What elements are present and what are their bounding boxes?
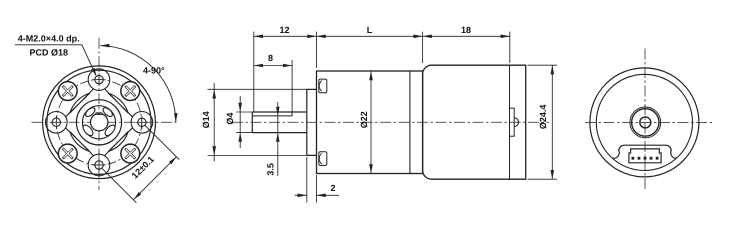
dim Ø24.4 xyxy=(528,65,558,179)
horizontal centerline right view xyxy=(585,121,715,123)
svg-text:Ø24.4: Ø24.4 xyxy=(538,105,548,130)
PCD Ø18 bolt circle (dash-dot) xyxy=(56,80,141,165)
dim Ø22 xyxy=(369,71,373,174)
shaft xyxy=(252,112,306,133)
screw lower-right xyxy=(121,144,140,163)
plate chamfer lines xyxy=(66,89,133,156)
M2 hole top xyxy=(93,73,106,86)
shaft flat xyxy=(252,112,292,116)
motor body xyxy=(423,65,526,179)
svg-text:4-M2.0×4.0 dp.: 4-M2.0×4.0 dp. xyxy=(18,33,80,43)
svg-text:Ø22: Ø22 xyxy=(359,111,369,128)
pins xyxy=(632,157,659,160)
boss Ø14 xyxy=(307,89,317,155)
M2 hole right xyxy=(135,116,148,129)
gearbox seam xyxy=(409,71,411,174)
slot upper-left xyxy=(84,106,96,118)
dim 12+-0.1 xyxy=(102,125,180,203)
svg-text:4-90°: 4-90° xyxy=(143,66,165,76)
slot lower-right xyxy=(103,123,116,137)
leader 4-M2.0x4.0dp xyxy=(15,45,97,77)
svg-text:3.5: 3.5 xyxy=(265,163,275,176)
plate ear circle left xyxy=(46,112,68,134)
horizontal centerline xyxy=(32,121,177,123)
plate diagonal arcs xyxy=(70,93,128,151)
vertical centerline xyxy=(98,38,100,190)
dim 2 xyxy=(295,157,339,203)
gearbox circle (Ø22) xyxy=(47,70,151,174)
dim Ø4 xyxy=(236,96,252,148)
centerline xyxy=(232,121,549,123)
motor outline circle (Ø24.4) xyxy=(43,66,156,179)
dim 8 xyxy=(254,60,292,115)
outer circle xyxy=(590,68,699,177)
screw lower-left xyxy=(58,144,77,163)
bearing rings xyxy=(630,107,661,138)
svg-text:PCD Ø18: PCD Ø18 xyxy=(30,47,69,57)
top dimension chain xyxy=(254,32,510,112)
plateau xyxy=(613,145,677,158)
inner circle xyxy=(596,74,692,170)
tab bottom xyxy=(319,152,327,166)
vertical centerline right view xyxy=(644,49,646,191)
dim Ø14 xyxy=(208,83,308,162)
dim 3.5 xyxy=(276,102,280,176)
svg-text:L: L xyxy=(367,25,373,35)
D-hole horns xyxy=(96,113,103,115)
plate ear circle top xyxy=(88,69,110,91)
plate ear circle right xyxy=(131,112,153,134)
svg-text:18: 18 xyxy=(461,25,471,35)
gearbox body xyxy=(317,71,423,174)
screw upper-right xyxy=(121,82,140,101)
svg-text:Ø14: Ø14 xyxy=(201,111,211,128)
plate ear circle bottom xyxy=(88,154,110,176)
rear boss detail xyxy=(510,108,515,136)
shaft D-hole (flat on top) xyxy=(91,114,108,131)
svg-text:2: 2 xyxy=(330,183,335,193)
svg-text:Ø4: Ø4 xyxy=(225,113,235,125)
screw upper-left xyxy=(58,82,77,101)
arc dimension 4-90 xyxy=(100,44,177,123)
M2 hole bottom xyxy=(93,159,106,172)
connector xyxy=(629,149,661,163)
motor endcap seam xyxy=(509,65,511,179)
tab top xyxy=(319,79,327,93)
hub mid circle xyxy=(82,106,115,139)
slot lower-left xyxy=(81,123,94,137)
svg-text:8: 8 xyxy=(268,53,273,63)
slot upper-right xyxy=(101,106,113,118)
boss circle (Ø14) xyxy=(76,100,121,145)
svg-text:12: 12 xyxy=(279,25,289,35)
M2 hole left xyxy=(50,116,63,129)
